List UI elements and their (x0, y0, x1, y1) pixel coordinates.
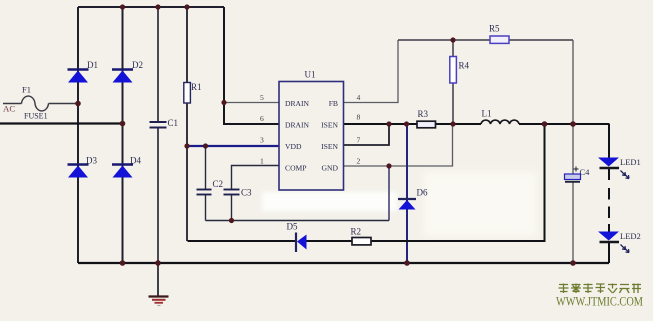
node dot rail ground (155, 260, 161, 266)
node dot rail C4 (570, 260, 576, 266)
svg-text:4: 4 (357, 93, 361, 102)
svg-text:GND: GND (322, 164, 339, 173)
node dot GND branch (386, 163, 391, 168)
diode D4 (112, 165, 133, 178)
svg-text:6: 6 (260, 114, 264, 123)
svg-text:ISEN: ISEN (321, 142, 338, 151)
node dot top R1 (184, 4, 189, 9)
wire R5 rail (398, 39, 573, 41)
wire ground stub (157, 263, 159, 296)
svg-text:COMP: COMP (285, 164, 307, 173)
diode D3 (68, 165, 89, 178)
svg-text:LED2: LED2 (620, 231, 641, 241)
wire D6 column (406, 124, 408, 263)
LED LED1 (598, 158, 629, 179)
capacitor C4 (565, 167, 581, 182)
node dot R4 top (450, 37, 455, 42)
inductor L1 (481, 120, 519, 124)
wire LED2 to rail (608, 242, 610, 263)
svg-text:D6: D6 (417, 188, 428, 198)
resistor R5 (490, 36, 509, 43)
svg-text:5: 5 (260, 93, 264, 102)
wire C3 bottom (231, 195, 233, 221)
node dot VDD R1 (184, 143, 189, 148)
wire pin 7 ISEN (344, 124, 390, 145)
wire R1 column (186, 7, 188, 146)
wire D1/D3 column (77, 7, 79, 263)
diode D6 (398, 199, 416, 210)
svg-text:DRAIN: DRAIN (285, 121, 310, 130)
svg-text:R4: R4 (459, 61, 470, 71)
diode D2 (112, 70, 133, 83)
svg-text:LED1: LED1 (620, 157, 641, 167)
fuse F1 (22, 96, 49, 111)
svg-text:7: 7 (357, 136, 361, 145)
svg-text:D4: D4 (130, 156, 141, 166)
svg-text:R5: R5 (489, 24, 500, 34)
svg-text:2: 2 (357, 157, 361, 166)
resistor R1 (184, 83, 191, 104)
ground (149, 297, 169, 306)
capacitor C1 (150, 122, 167, 128)
svg-text:1: 1 (260, 157, 264, 166)
svg-text:AC: AC (3, 104, 15, 114)
svg-text:D5: D5 (287, 222, 298, 232)
wire DRAIN column and pin 6 (224, 7, 279, 124)
node dot output C4 (570, 121, 576, 127)
node dot AC top D1 (75, 101, 81, 107)
wire C2 column (205, 146, 207, 221)
wire AC top with fuse gap (3, 103, 78, 105)
svg-text:F1: F1 (22, 85, 31, 95)
node dot R3 R4 (450, 121, 455, 126)
LED LED2 (598, 232, 629, 253)
svg-text:R3: R3 (418, 109, 429, 119)
wire bottom rail (78, 262, 609, 264)
svg-text:FUSE1: FUSE1 (24, 112, 48, 121)
svg-text:R2: R2 (351, 227, 362, 237)
svg-text:U1: U1 (305, 70, 316, 80)
resistor R2 (352, 238, 371, 245)
diode D5 (296, 233, 307, 253)
resistor R3 (417, 121, 436, 128)
svg-text:L1: L1 (482, 109, 492, 119)
svg-text:3: 3 (260, 136, 264, 145)
wire C1 column (157, 7, 159, 263)
svg-text:DRAIN: DRAIN (285, 99, 310, 108)
wire D5 R2 net (188, 124, 545, 241)
node dot D6 top (404, 121, 409, 126)
wire VDD pin 3 (187, 145, 279, 147)
diode D1 (68, 70, 89, 83)
op IC U1 box (279, 82, 344, 191)
wire pin 1 COMP to C3 (232, 166, 280, 190)
svg-text:D2: D2 (132, 60, 143, 70)
node dot pin7 pin8 (386, 121, 391, 126)
node dot VDD C2 (203, 143, 208, 148)
node dot pin5 drain column (221, 100, 226, 105)
svg-text:D3: D3 (86, 156, 97, 166)
svg-text:D1: D1 (87, 60, 98, 70)
watermark chinese (559, 284, 642, 294)
svg-text:8: 8 (357, 113, 361, 122)
resistor R4 (450, 57, 457, 84)
wire D2/D4 column (122, 7, 124, 263)
wire AC bottom (0, 122, 123, 124)
wire C2 C3 ground net (206, 220, 390, 222)
svg-text:WWW.JTMIC.COM: WWW.JTMIC.COM (556, 294, 643, 309)
wire pin 8 ISEN (344, 123, 610, 125)
svg-text:C3: C3 (241, 188, 252, 198)
wire top rail (78, 6, 224, 8)
svg-text:FB: FB (329, 99, 338, 108)
wire GND branch (388, 166, 390, 221)
wire pin 2 GND (344, 124, 453, 166)
wire R1 to D5 net (186, 146, 188, 241)
svg-text:VDD: VDD (285, 142, 302, 151)
svg-text:C2: C2 (213, 179, 224, 189)
wire R5 down to output (572, 40, 574, 124)
node dot top C1 (155, 4, 160, 9)
node dot output R2 net (542, 121, 548, 127)
wire C4 column (572, 124, 574, 263)
node dot rail D4 (120, 260, 126, 266)
node dot C3 bottom (229, 218, 234, 223)
wire R4 column (452, 40, 454, 124)
wire pin 5 (224, 102, 279, 104)
svg-text:ISEN: ISEN (321, 121, 338, 130)
wire LED column top (608, 124, 610, 158)
wire LED1 to LED2 dashed (608, 168, 610, 232)
node dot rail D6 (404, 260, 410, 266)
capacitor C2 (197, 190, 212, 195)
svg-text:C1: C1 (168, 118, 179, 128)
wire pin 4 FB (344, 40, 399, 103)
capacitor C3 (224, 190, 240, 195)
svg-text:R1: R1 (191, 82, 202, 92)
node dot top D2 (120, 4, 125, 9)
svg-text:C4: C4 (580, 167, 591, 177)
node dot AC bottom D2 (120, 121, 126, 127)
